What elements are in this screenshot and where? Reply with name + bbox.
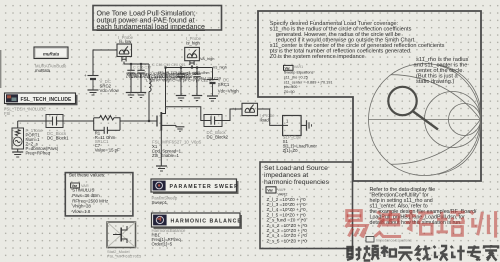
wire block2 to load probe bbox=[222, 109, 242, 121]
wire bbox=[63, 120, 94, 122]
capacitor C7 bbox=[94, 129, 105, 131]
current probe Iload bbox=[234, 103, 275, 122]
node junction dots bbox=[130, 63, 198, 69]
VAR1 sweep equations bbox=[284, 65, 333, 94]
ground FET source main bbox=[156, 166, 167, 171]
FSL_TECH_INCLUDE block bbox=[4, 93, 78, 116]
svg-text:Sweep Equations: Sweep Equations bbox=[284, 71, 314, 75]
STIMULUS variables box bbox=[65, 173, 133, 216]
DC_Block2 bbox=[204, 115, 229, 140]
capacitor C17 bbox=[136, 64, 146, 98]
transistor X1 FET bbox=[157, 107, 176, 166]
svg-text:+: + bbox=[84, 73, 87, 78]
svg-text:Z0=50: Z0=50 bbox=[284, 90, 295, 94]
muRata include block bbox=[34, 47, 68, 73]
wire source to RF line bbox=[17, 121, 19, 128]
svg-text:Is_low: Is_low bbox=[119, 39, 132, 44]
V_DC source SRC1 bbox=[203, 68, 239, 102]
svg-text:Order[1]=5: Order[1]=5 bbox=[152, 241, 173, 246]
svg-text:muRata: muRata bbox=[43, 51, 60, 56]
svg-text:Vlow=1.8: Vlow=1.8 bbox=[72, 209, 91, 214]
svg-text:FSl: FSl bbox=[4, 111, 10, 116]
S1P_Eqn load tuner S1 bbox=[283, 116, 318, 154]
svg-text:STIMULUS: STIMULUS bbox=[72, 188, 94, 193]
current probe Is_low bbox=[117, 35, 134, 64]
ground FET source stub bbox=[176, 125, 185, 131]
svg-text:pts=500: pts=500 bbox=[284, 85, 298, 89]
svg-text:FSL_MRF6S27_10_V6p5: FSL_MRF6S27_10_V6p5 bbox=[152, 140, 202, 145]
capacitor C20 bbox=[192, 68, 202, 101]
svg-text:+: + bbox=[234, 107, 237, 113]
svg-text:Value='15 pF': Value='15 pF' bbox=[95, 148, 121, 153]
svg-text:Vhigh=28: Vhigh=28 bbox=[72, 204, 91, 209]
capacitor C16 bbox=[126, 64, 136, 98]
svg-text:PARAMETER SWEEP: PARAMETER SWEEP bbox=[170, 184, 239, 190]
transistor labels bbox=[152, 140, 202, 159]
svg-text:static drawing.): static drawing.) bbox=[416, 79, 454, 85]
refer-to note text bbox=[370, 187, 477, 226]
svg-text:Z[1]=Z0: Z[1]=Z0 bbox=[283, 148, 299, 153]
wire RC to gate bbox=[120, 120, 157, 122]
grey watermark characters bbox=[347, 245, 498, 261]
svg-text:FSL_MRF6S27015: FSL_MRF6S27015 bbox=[107, 254, 142, 259]
VAR2 equations bbox=[266, 187, 276, 193]
resistor R1 bbox=[100, 116, 114, 120]
impedance equations icon bbox=[366, 237, 412, 243]
svg-text:Vdc=Vlow: Vdc=Vlow bbox=[100, 88, 120, 93]
ground SRC1 bbox=[207, 95, 218, 97]
svg-text:Set these values:: Set these values: bbox=[69, 173, 106, 179]
title note box bbox=[93, 6, 222, 32]
current probe Is_high bbox=[185, 36, 202, 68]
DC_Block1 bbox=[46, 115, 69, 141]
svg-text:Zth_Enable=1: Zth_Enable=1 bbox=[152, 153, 179, 158]
ground PORT1 bbox=[17, 149, 19, 152]
svg-text:muRata: muRata bbox=[35, 68, 51, 73]
svg-text:Sweep1: Sweep1 bbox=[152, 200, 168, 205]
svg-text:Set Load and Source: Set Load and Source bbox=[264, 165, 328, 172]
fundamental load tuner note box (L-shaped) bbox=[258, 11, 481, 181]
svg-text:Vs_high: Vs_high bbox=[213, 65, 227, 70]
wire probe to drain bus bbox=[190, 61, 194, 65]
svg-text:Freq=RFfreq: Freq=RFfreq bbox=[26, 150, 51, 155]
device model box bbox=[107, 222, 142, 259]
svg-text:Vdc=Vhigh: Vdc=Vhigh bbox=[218, 89, 240, 94]
svg-text:Impedance Equations: Impedance Equations bbox=[376, 238, 412, 242]
svg-text:VAR1: VAR1 bbox=[294, 65, 303, 69]
gate bias bus wire bbox=[124, 63, 149, 65]
svg-text:FSL_TECH_INCLUDE: FSL_TECH_INCLUDE bbox=[4, 106, 46, 111]
P_1Tone source PORT1 bbox=[12, 121, 59, 157]
node junction gate bias bbox=[148, 120, 150, 122]
svg-text:Z0 is the system reference imp: Z0 is the system reference impedance bbox=[270, 54, 365, 60]
harmonic impedances note box bbox=[260, 162, 353, 249]
svg-text:SRC1: SRC1 bbox=[218, 82, 230, 87]
svg-text:Iload: Iload bbox=[260, 117, 270, 122]
HARMONIC BALANCE controller bbox=[152, 213, 243, 246]
svg-text:impedances at: impedances at bbox=[264, 172, 308, 179]
svg-text:harmonic frequencies: harmonic frequencies bbox=[264, 179, 330, 186]
wire FET drain to bias bus bbox=[165, 68, 167, 107]
PARAMETER SWEEP controller bbox=[151, 179, 239, 205]
s11 circle annotation (loupe) bbox=[388, 87, 438, 130]
ground S1P bbox=[301, 124, 306, 126]
svg-text:DC_Block2: DC_Block2 bbox=[207, 135, 229, 140]
capacitor C18 bbox=[176, 68, 186, 101]
parallel RC network R1/C7 bbox=[94, 116, 121, 153]
chart caption text bbox=[414, 57, 469, 85]
wire probe to gate bias bus bbox=[122, 57, 126, 62]
svg-text:Pavs=36 dBm: Pavs=36 dBm bbox=[72, 193, 100, 198]
svg-text:RFfreq=2500 MHz: RFfreq=2500 MHz bbox=[72, 198, 108, 203]
inductor L6 gate feed bbox=[149, 64, 151, 121]
svg-text:C C16 C17: C C16 C17 bbox=[133, 66, 151, 70]
wire RF input bbox=[18, 120, 46, 122]
ground C16 bbox=[126, 92, 136, 94]
wire SRC2 top to gate-probe feed bbox=[93, 50, 117, 76]
svg-text:each fundamental load impedanc: each fundamental load impedance bbox=[97, 23, 206, 31]
left edge dark mark bbox=[0, 50, 1, 88]
svg-text:VA_high: VA_high bbox=[200, 56, 214, 61]
svg-text:s11_rho =0.25: s11_rho =0.25 bbox=[284, 75, 308, 79]
red watermark characters bbox=[346, 210, 496, 238]
V_DC source SRC2 bbox=[84, 50, 120, 95]
drain bias bus wire bbox=[166, 67, 213, 69]
svg-text:+: + bbox=[203, 77, 206, 82]
svg-text:s11_center =-0.889 + j*0.191: s11_center =-0.889 + j*0.191 bbox=[284, 80, 333, 84]
svg-text:HARMONIC BALANCE: HARMONIC BALANCE bbox=[171, 218, 242, 224]
note paragraph bbox=[270, 21, 445, 60]
svg-text:Z_s_5 =10*Z0 + j*0: Z_s_5 =10*Z0 + j*0 bbox=[267, 238, 308, 243]
svg-text:DC_Block1: DC_Block1 bbox=[47, 136, 69, 141]
wire drain RF takeoff bbox=[166, 107, 205, 121]
smith chart drawing bbox=[369, 64, 481, 176]
svg-text:1: 1 bbox=[286, 119, 289, 124]
svg-text:Var: Var bbox=[267, 189, 273, 193]
svg-text:Is_high: Is_high bbox=[186, 40, 200, 45]
svg-text:FSL_TECH_INCLUDE: FSL_TECH_INCLUDE bbox=[21, 97, 73, 103]
ground C17 bbox=[136, 92, 146, 94]
ground SRC2 bbox=[88, 89, 99, 91]
label smudge overlapping bias text bbox=[126, 63, 221, 82]
wire probe to load tuner bbox=[258, 109, 283, 125]
